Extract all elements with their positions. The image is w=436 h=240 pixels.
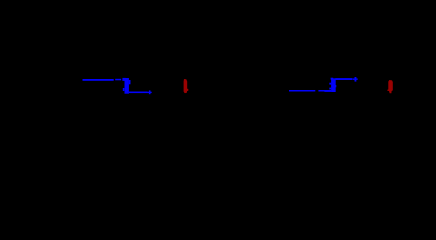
resistor R2 (vertical blue squiggle, right circuit)	[324, 78, 336, 92]
node B (plus polarity marker, right circuit)	[353, 77, 358, 82]
wire (right circuit, short dash before junction)	[318, 90, 324, 92]
wire (right circuit, bottom horizontal segment)	[289, 90, 315, 92]
battery B2 (red plate element, right circuit)	[387, 80, 392, 93]
resistor R1 (vertical blue squiggle, left circuit)	[122, 78, 130, 94]
battery B1 (red plate element, left circuit)	[184, 79, 189, 93]
node A (plus polarity marker, left circuit)	[147, 90, 151, 94]
wire (left circuit, short dash after junction gap)	[115, 79, 121, 81]
wire (left circuit, top horizontal segment)	[83, 79, 114, 81]
wire (right circuit, top horizontal segment)	[335, 78, 352, 80]
wire (left circuit, bottom horizontal segment)	[129, 92, 148, 94]
